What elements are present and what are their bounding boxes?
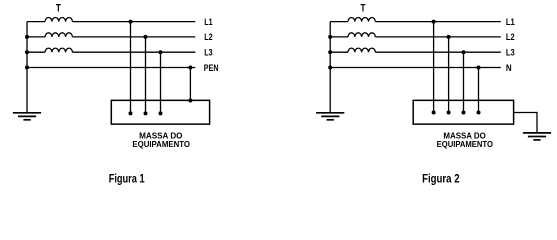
svg-text:L2: L2 bbox=[506, 31, 515, 42]
node: bus junction at L2 (fig2) bbox=[328, 35, 332, 39]
wire: L1 line left stub (vertical bus to winding) bbox=[27, 21, 45, 23]
node: tap junction on L3 (fig2) bbox=[462, 50, 466, 54]
wire: L3 line (winding to label, fig2) bbox=[375, 51, 500, 53]
ground: source earth electrode (fig1) bbox=[13, 113, 41, 120]
wire: L2 line left stub bbox=[27, 36, 45, 38]
node: tap junction on L2 (fig1) bbox=[144, 35, 148, 39]
node: L3 terminal inside equipment (fig1) bbox=[159, 111, 163, 115]
node: tap junction on PEN (fig1) bbox=[188, 66, 192, 70]
wire: neutral-point bus vertical (fig2) bbox=[329, 22, 331, 112]
svg-text:L2: L2 bbox=[204, 31, 212, 42]
transformer T2 winding (phase L1) bbox=[348, 18, 375, 22]
wire: L1 tap down to equipment (fig1) bbox=[130, 22, 132, 114]
node: bus junction at L3 (fig2) bbox=[328, 50, 332, 54]
node: tap junction on L3 (fig1) bbox=[159, 50, 163, 54]
node: L1 terminal inside equipment (fig1) bbox=[129, 111, 133, 115]
svg-text:T: T bbox=[361, 2, 366, 14]
wire: PEN tap down to chassis (fig1) bbox=[189, 68, 191, 101]
ground: equipment earth electrode (fig2) bbox=[523, 133, 551, 140]
wire: L3 tap down to equipment (fig1) bbox=[160, 52, 162, 113]
wire: L3 line (winding to label) bbox=[72, 51, 195, 53]
wire: L1 line (winding to label, fig2) bbox=[375, 21, 500, 23]
svg-text:T: T bbox=[56, 2, 61, 14]
node: tap junction on N (fig2) bbox=[477, 66, 481, 70]
wire: L2 tap down to equipment (fig2) bbox=[448, 37, 450, 113]
node: L3 terminal inside equipment (fig2) bbox=[462, 111, 466, 115]
wire: neutral-point bus vertical (fig1) bbox=[26, 22, 28, 112]
svg-text:PEN: PEN bbox=[204, 62, 219, 73]
wire: chassis earthing conductor (fig2) bbox=[514, 113, 537, 133]
svg-text:Figura 2: Figura 2 bbox=[422, 172, 460, 185]
wire: L1 line left stub (fig2) bbox=[330, 21, 348, 23]
node: bus junction at L3 (fig1) bbox=[25, 50, 29, 54]
equipment chassis box (fig1) bbox=[111, 100, 209, 124]
wire: L3 line left stub (fig2) bbox=[330, 51, 348, 53]
transformer T2 winding (phase L2) bbox=[348, 33, 375, 37]
wire: L3 tap down to equipment (fig2) bbox=[463, 52, 465, 112]
node: PEN bond to chassis (fig1) bbox=[188, 99, 192, 103]
wire: L2 line (winding to label, fig2) bbox=[375, 36, 500, 38]
svg-text:L3: L3 bbox=[204, 46, 212, 57]
wire: L3 line left stub bbox=[27, 51, 45, 53]
wire: L2 line left stub (fig2) bbox=[330, 36, 348, 38]
node: L2 terminal inside equipment (fig1) bbox=[144, 111, 148, 115]
node: L1 terminal inside equipment (fig2) bbox=[432, 111, 436, 115]
svg-text:L1: L1 bbox=[204, 16, 212, 27]
ground: source earth electrode (fig2) bbox=[316, 113, 344, 120]
node: bus junction at N (fig2) bbox=[328, 66, 332, 70]
wire: L1 tap down to equipment (fig2) bbox=[433, 22, 435, 113]
transformer T1 winding (phase L3) bbox=[45, 48, 72, 52]
svg-text:N: N bbox=[506, 62, 512, 73]
svg-text:EQUIPAMENTO: EQUIPAMENTO bbox=[132, 139, 190, 149]
transformer T2 winding (phase L3) bbox=[348, 48, 375, 52]
svg-text:L3: L3 bbox=[506, 46, 515, 57]
wire: N tap down to equipment (fig2) bbox=[478, 68, 480, 113]
svg-text:L1: L1 bbox=[506, 16, 515, 27]
wire: N line (fig2) bbox=[330, 67, 501, 69]
wire: L1 line (winding to label) bbox=[72, 21, 195, 23]
wire: PEN line bbox=[27, 67, 195, 69]
equipment chassis box (fig2) bbox=[413, 100, 513, 124]
node: N terminal inside equipment (fig2) bbox=[477, 111, 481, 115]
node: tap junction on L2 (fig2) bbox=[447, 35, 451, 39]
svg-text:EQUIPAMENTO: EQUIPAMENTO bbox=[437, 139, 494, 149]
node: bus junction at L2 (fig1) bbox=[25, 35, 29, 39]
node: L2 terminal inside equipment (fig2) bbox=[447, 111, 451, 115]
wire: L2 tap down to equipment (fig1) bbox=[145, 37, 147, 114]
node: tap junction on L1 (fig2) bbox=[432, 20, 436, 24]
wire: L2 line (winding to label) bbox=[72, 36, 195, 38]
svg-text:Figura 1: Figura 1 bbox=[109, 172, 145, 185]
node: bus junction at PEN (fig1) bbox=[25, 66, 29, 70]
node: tap junction on L1 (fig1) bbox=[129, 20, 133, 24]
transformer T1 winding (phase L1) bbox=[45, 18, 72, 22]
transformer T1 winding (phase L2) bbox=[45, 33, 72, 37]
